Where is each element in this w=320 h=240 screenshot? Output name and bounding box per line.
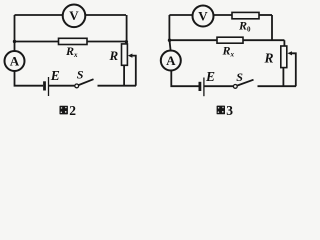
wire top segment 1 (left corner to voltmeter) xyxy=(169,14,192,16)
wire left vertical (figure 3) xyxy=(168,15,170,40)
wire middle-right segment (Rx to right vertical) xyxy=(87,41,127,43)
wire ammeter top lead xyxy=(14,42,16,52)
ammeter A (figure 2) xyxy=(5,51,25,71)
label 图3 caption glyph xyxy=(217,106,225,115)
wire ammeter bottom lead (figure 3) xyxy=(171,71,198,87)
node b (junction at right of middle wire) xyxy=(125,40,128,43)
resistor Rx (figure 2) xyxy=(59,38,88,44)
node c (junction above ammeter, figure 3) xyxy=(168,39,171,42)
wire rheostat top lead (figure 3) xyxy=(283,40,285,46)
svg-text:V: V xyxy=(198,8,208,23)
wire top-right segment (voltmeter to right corner) xyxy=(85,14,126,16)
battery E (figure 2) xyxy=(45,77,49,96)
svg-text:A: A xyxy=(166,53,176,68)
svg-text:S: S xyxy=(77,67,84,81)
wire middle-left segment (node a to Rx) xyxy=(15,41,59,43)
svg-text:R: R xyxy=(264,51,274,66)
wire battery to switch xyxy=(49,85,75,87)
wire ammeter bottom lead xyxy=(15,71,44,86)
wire rheostat bottom lead xyxy=(123,65,125,85)
svg-text:V: V xyxy=(69,8,79,23)
node a (junction above ammeter) xyxy=(13,40,16,43)
wire rheostat slider bracket xyxy=(132,56,136,86)
resistor Rx (figure 3) xyxy=(217,37,243,43)
label 图2 caption glyph xyxy=(60,106,68,115)
wire right vertical (top wire down to resistor R) xyxy=(126,15,128,42)
wire top segment 2 (voltmeter to R0) xyxy=(214,14,233,16)
resistor R0 (figure 3) xyxy=(232,12,259,18)
svg-text:S: S xyxy=(236,70,243,84)
voltmeter V (figure 2) xyxy=(63,5,86,28)
svg-text:3: 3 xyxy=(226,103,233,118)
svg-text:2: 2 xyxy=(69,103,76,118)
wire battery to switch (figure 3) xyxy=(204,85,233,87)
svg-text:R: R xyxy=(109,48,119,63)
voltmeter V (figure 3) xyxy=(193,6,214,27)
wire middle-right segment (Rx to rheostat, figure 3) xyxy=(243,39,284,41)
rheostat slider arrowhead (figure 3) xyxy=(287,51,292,55)
battery E (figure 3) xyxy=(200,78,204,97)
wire top segment 3 (R0 to right corner) xyxy=(259,14,272,16)
wire left vertical (top wire to node a) xyxy=(14,15,16,42)
wire rheostat bottom lead (figure 3) xyxy=(282,68,284,87)
svg-text:A: A xyxy=(10,53,20,68)
wire rheostat slider bracket (figure 3) xyxy=(290,53,296,86)
rheostat slider arrowhead (figure 2) xyxy=(128,54,133,58)
wire right vertical (figure 3) xyxy=(271,15,273,40)
svg-text:E: E xyxy=(50,68,60,83)
svg-text:E: E xyxy=(205,69,215,84)
rheostat R (figure 3) xyxy=(281,46,287,68)
wire ammeter top lead (figure 3) xyxy=(170,40,171,50)
wire switch to rheostat (figure 3) xyxy=(258,85,297,87)
wire switch to rheostat xyxy=(98,85,137,87)
wire middle-left segment (node c to Rx, figure 3) xyxy=(169,39,217,41)
switch S (figure 2) xyxy=(75,79,94,88)
wire top-left segment (top wire to voltmeter) xyxy=(15,14,64,16)
ammeter A (figure 3) xyxy=(161,51,181,71)
switch S (figure 3) xyxy=(233,80,253,89)
rheostat R (figure 2) xyxy=(122,44,128,65)
